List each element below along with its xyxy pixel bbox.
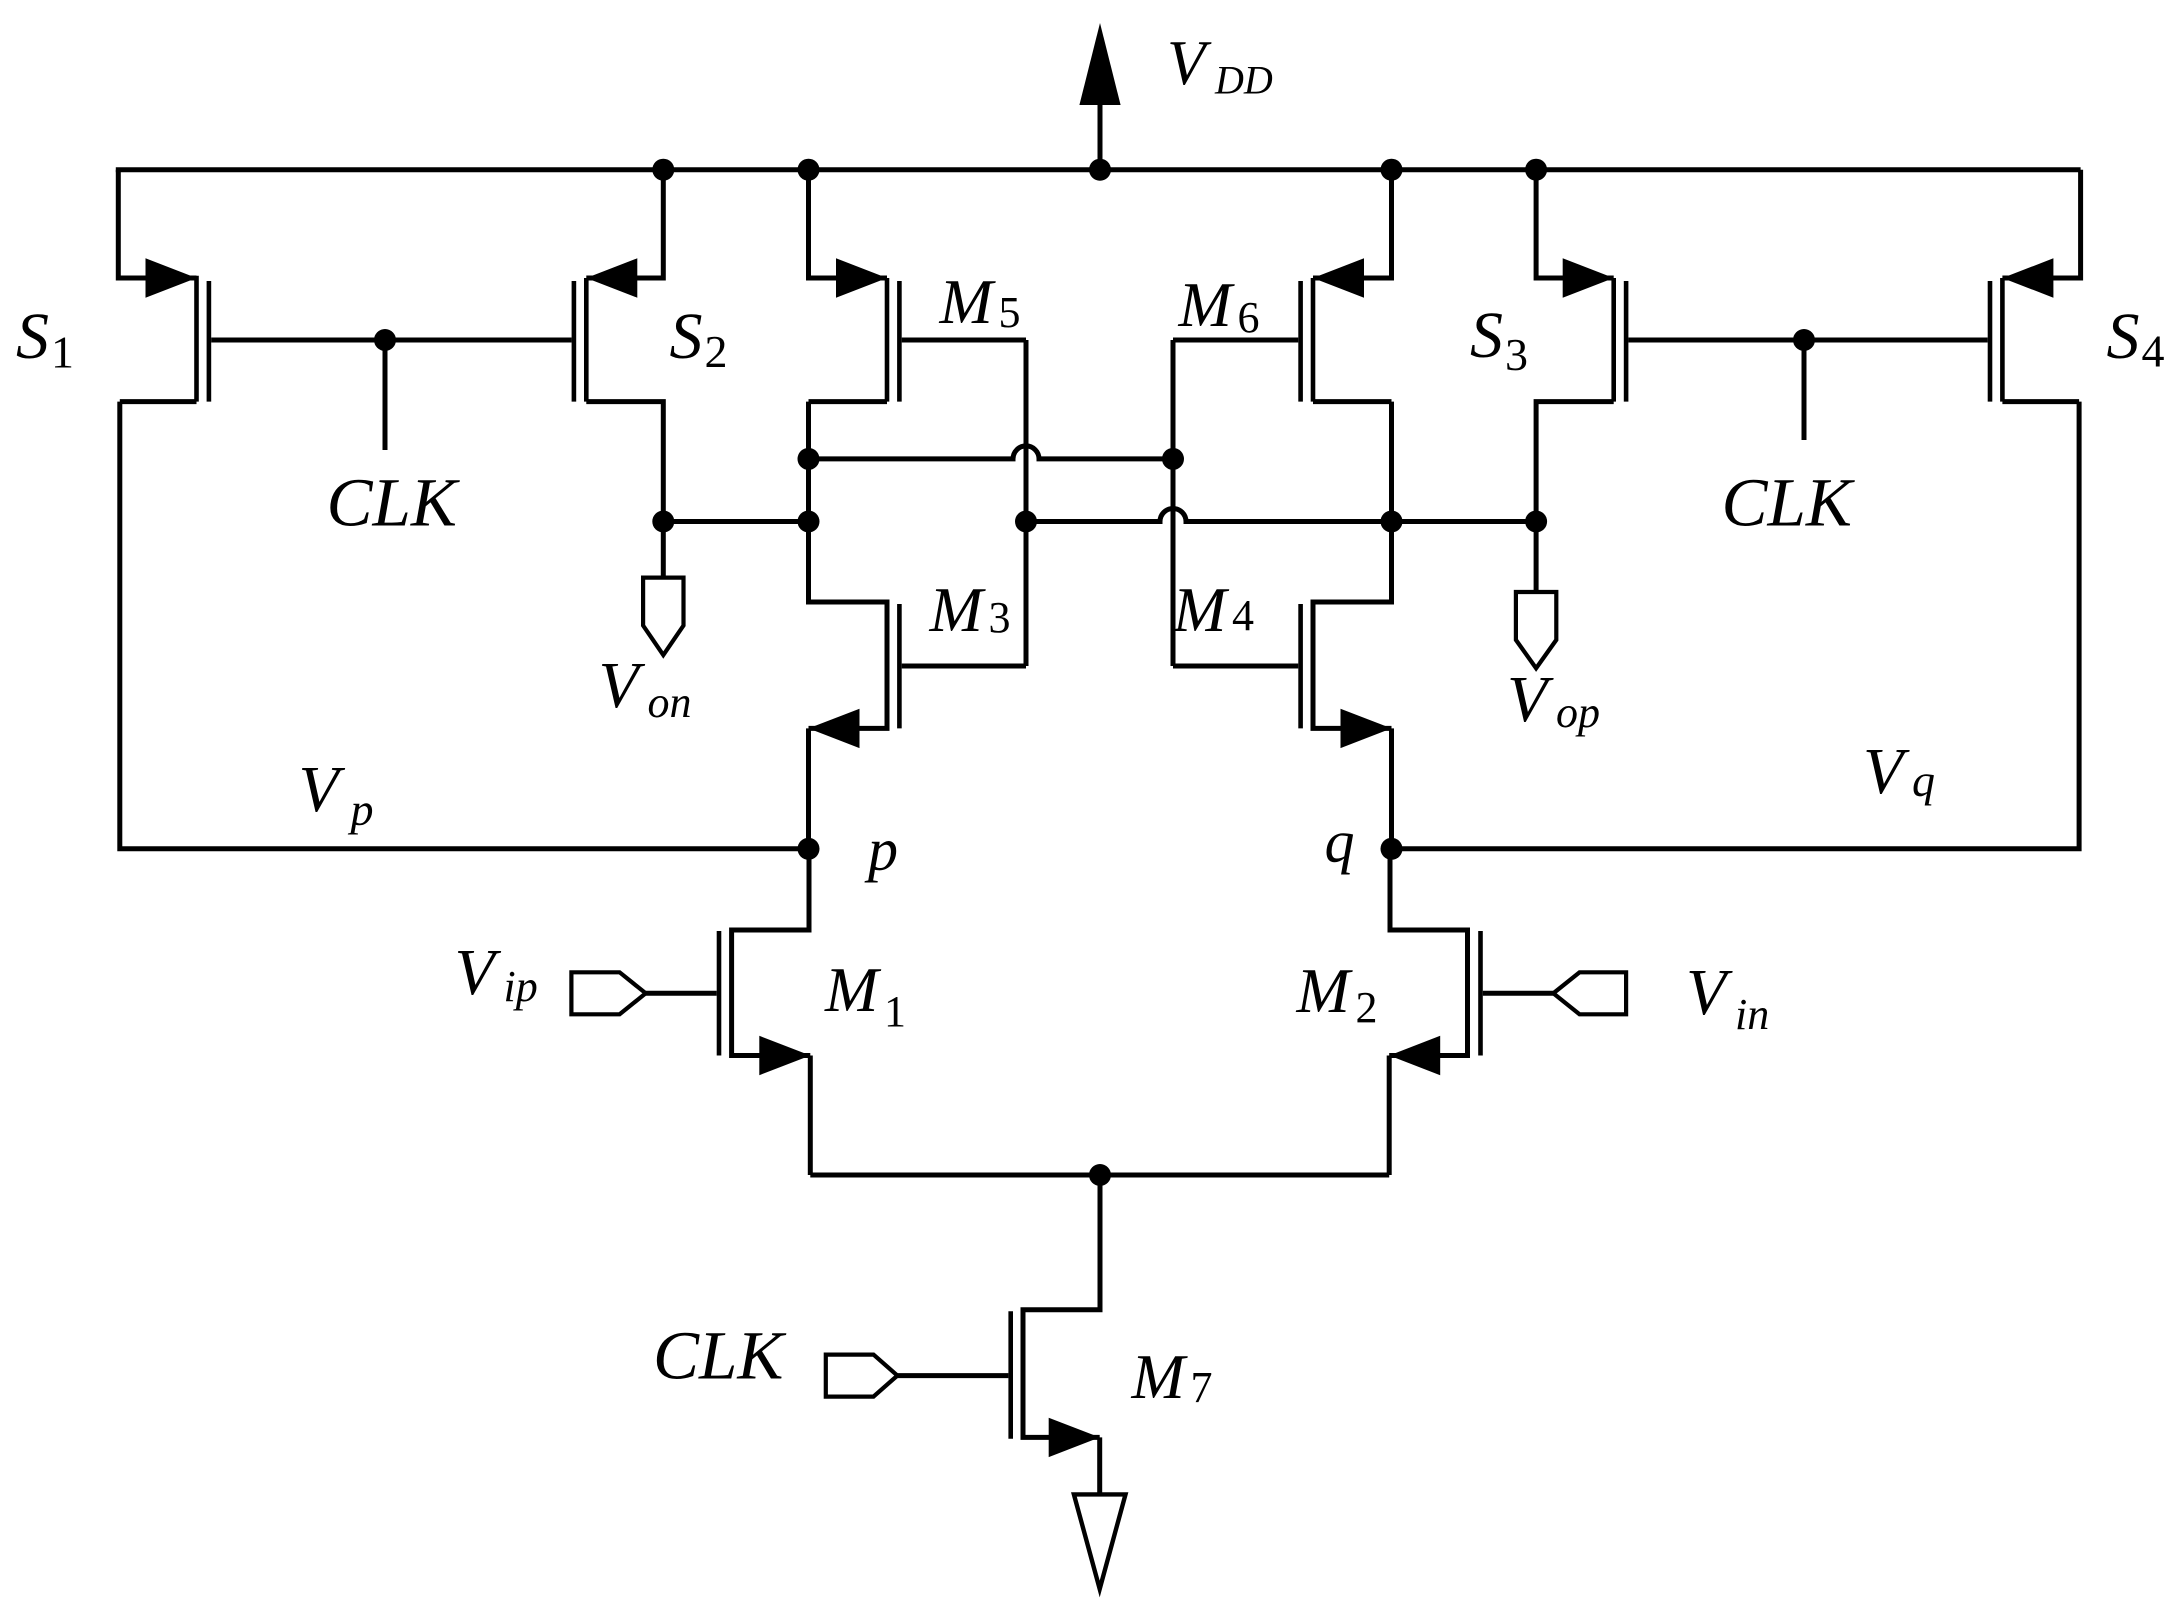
- transistor S2 (PMOS switch): [586, 170, 663, 278]
- transistor S3 (PMOS switch): [1536, 170, 1614, 278]
- svg-text:CLK: CLK: [327, 465, 460, 541]
- svg-text:on: on: [648, 678, 692, 727]
- wire S2 drain to left output: [663, 519, 808, 524]
- svg-text:CLK: CLK: [653, 1318, 786, 1394]
- node CLK left gate junction: [374, 329, 396, 351]
- svg-text:M: M: [929, 574, 987, 645]
- wire Vop stem: [1534, 522, 1539, 593]
- svg-text:q: q: [1912, 755, 1935, 806]
- node M5 source on VDD rail: [798, 159, 820, 181]
- wire right output vertical (M6 drain to M4 drain): [1389, 402, 1394, 602]
- svg-text:7: 7: [1191, 1363, 1213, 1412]
- svg-text:6: 6: [1238, 293, 1260, 342]
- transistor S1 (PMOS switch): [118, 170, 196, 278]
- wire lower cross wire (left gates to right output, to S3 drain) with hop: [1026, 509, 1536, 522]
- node right gates / upper wire: [1162, 448, 1184, 470]
- svg-text:CLK: CLK: [1722, 465, 1855, 541]
- svg-text:M: M: [1172, 574, 1230, 645]
- node S3 drain / Vop: [1525, 511, 1547, 533]
- transistor M7 (NMOS clock tail): [1008, 1311, 1013, 1439]
- node left output / upper wire: [798, 448, 820, 470]
- node CLK right gate junction: [1793, 329, 1815, 351]
- node S3 source on VDD rail: [1525, 159, 1547, 181]
- transistor M3 (NMOS latch): [809, 522, 888, 729]
- terminal CLK flag (M7 gate): [826, 1355, 898, 1397]
- wire M4 source to node q: [1389, 728, 1394, 848]
- wire Von stem: [661, 522, 666, 578]
- svg-text:1: 1: [884, 987, 906, 1036]
- node right output / lower wire: [1381, 511, 1403, 533]
- terminal Vop flag: [1516, 592, 1556, 668]
- transistor M2 (NMOS input): [1478, 931, 1483, 1056]
- svg-text:S: S: [670, 300, 703, 373]
- node VDD stem junction: [1089, 159, 1111, 181]
- svg-text:V: V: [1686, 956, 1733, 1029]
- svg-text:S: S: [1470, 299, 1503, 372]
- wire left gates vertical (M5/M3 gate): [1024, 340, 1029, 666]
- svg-text:ip: ip: [504, 962, 538, 1011]
- svg-text:p: p: [348, 784, 374, 835]
- svg-text:S: S: [2107, 300, 2140, 373]
- svg-text:M: M: [1131, 1341, 1189, 1412]
- wire Vp (S1 drain down left edge to node p): [120, 402, 809, 849]
- svg-text:V: V: [1507, 663, 1554, 736]
- svg-text:S: S: [16, 300, 49, 373]
- node S2 drain / Von: [652, 511, 674, 533]
- svg-text:3: 3: [989, 593, 1011, 642]
- wire right gates vertical (M6/M4 gate): [1171, 340, 1176, 666]
- svg-text:V: V: [299, 753, 346, 826]
- terminal Von flag: [643, 578, 683, 655]
- node left output / lower wire: [798, 511, 820, 533]
- svg-text:4: 4: [1232, 591, 1254, 640]
- wire upper cross wire (left output to right gates) with hop: [809, 446, 1174, 459]
- svg-text:M: M: [824, 954, 882, 1025]
- wire VDD top rail: [116, 167, 2081, 172]
- node q: [1381, 838, 1403, 860]
- svg-text:5: 5: [999, 288, 1021, 337]
- svg-text:M: M: [939, 266, 997, 337]
- svg-text:V: V: [455, 936, 502, 1009]
- transistor M6 (PMOS): [1313, 170, 1392, 278]
- wire M2 source to tail: [1387, 1056, 1392, 1176]
- node left gates / lower wire: [1015, 511, 1037, 533]
- wire CLK left stem: [383, 340, 388, 450]
- svg-text:1: 1: [51, 327, 74, 378]
- svg-text:M: M: [1296, 955, 1354, 1026]
- wire M3 source to node p: [806, 728, 811, 848]
- svg-text:2: 2: [1356, 983, 1378, 1032]
- transistor M4 (NMOS latch): [1313, 522, 1392, 729]
- svg-text:op: op: [1556, 688, 1600, 737]
- svg-text:V: V: [1863, 735, 1910, 808]
- wire Vq (S4 drain down right edge to node q): [1392, 402, 2080, 849]
- node tail junction: [1089, 1164, 1111, 1186]
- wire M7 source to ground: [1097, 1437, 1102, 1494]
- svg-text:in: in: [1735, 990, 1769, 1039]
- wire tail rail: [810, 1173, 1389, 1178]
- node p: [798, 838, 820, 860]
- wire CLK right stem: [1802, 340, 1807, 440]
- node S2 source on VDD rail: [652, 159, 674, 181]
- svg-text:2: 2: [705, 326, 728, 377]
- terminal Vip flag: [571, 972, 645, 1014]
- power VDD arrow: [1098, 105, 1103, 170]
- svg-text:DD: DD: [1214, 58, 1273, 103]
- svg-text:q: q: [1325, 809, 1355, 875]
- ground symbol: [1074, 1494, 1126, 1589]
- svg-text:p: p: [864, 817, 898, 883]
- node M6 source on VDD rail: [1381, 159, 1403, 181]
- wire M1 source to tail: [808, 1056, 813, 1176]
- svg-text:V: V: [599, 649, 646, 722]
- terminal Vin flag: [1553, 972, 1626, 1014]
- transistor S4 (PMOS switch): [2002, 170, 2080, 278]
- svg-text:3: 3: [1505, 329, 1528, 380]
- svg-text:4: 4: [2142, 325, 2165, 376]
- wire left output vertical (M5 drain to M3 drain): [806, 402, 811, 602]
- transistor M1 (NMOS input): [717, 931, 722, 1056]
- svg-text:V: V: [1167, 28, 1212, 98]
- transistor M5 (PMOS): [809, 170, 888, 278]
- svg-text:M: M: [1178, 269, 1236, 340]
